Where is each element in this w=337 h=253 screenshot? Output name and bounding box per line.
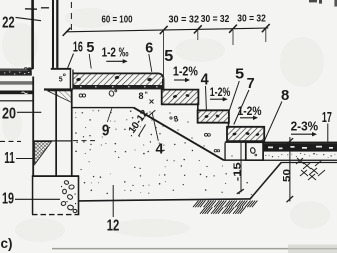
arrow landing <box>106 60 123 62</box>
footing top edge <box>32 175 79 177</box>
leader 17 <box>327 124 329 142</box>
stones in tile strip <box>76 78 81 82</box>
svg-text:7: 7 <box>247 75 255 92</box>
svg-text:5: 5 <box>164 48 173 65</box>
scan artifact top right <box>309 0 317 2</box>
joint 16 vertical lines <box>70 69 71 90</box>
landing tile top border with rounded nose <box>73 73 164 90</box>
leader 6 <box>149 54 152 72</box>
foundation wall left line <box>55 91 57 176</box>
riser 2 face <box>197 104 199 110</box>
dim line 50 <box>289 137 291 202</box>
svg-text:1-2%: 1-2% <box>238 104 262 118</box>
svg-text:60 = 100: 60 = 100 <box>102 15 133 26</box>
stone marks in landing concrete <box>79 94 82 97</box>
top dimension line <box>66 28 268 32</box>
svg-text:6: 6 <box>145 40 153 57</box>
svg-text:22: 22 <box>2 14 15 31</box>
svg-text:5: 5 <box>235 66 244 83</box>
wall base block top edge <box>51 68 71 70</box>
svg-text:30 = 32: 30 = 32 <box>201 14 230 25</box>
pavement bedding stipple <box>265 155 266 156</box>
landing concrete bottom line <box>71 107 134 108</box>
wall break dashes <box>25 8 37 10</box>
dashed extension of joint 16 <box>70 2 72 31</box>
leader 7 <box>234 90 249 125</box>
svg-text:19: 19 <box>2 191 14 208</box>
leader 9 <box>107 109 112 123</box>
stone marks in step concrete <box>170 117 172 119</box>
stroke mark near diagonal <box>139 125 146 137</box>
footing bottom dashed <box>32 214 79 216</box>
svg-text:12: 12 <box>107 218 120 235</box>
pavement dark layer <box>263 143 337 151</box>
svg-text:20: 20 <box>2 106 16 123</box>
line under tread3 to curb area <box>225 141 246 143</box>
excavation slope line <box>250 162 281 199</box>
interior floor layer line 2 <box>0 83 33 84</box>
landing nose face <box>162 79 164 90</box>
scan artifact bottom line <box>52 248 337 250</box>
svg-text:5: 5 <box>86 39 94 56</box>
svg-text:-15: -15 <box>233 162 244 182</box>
tread 1 <box>162 90 199 105</box>
horizontal line inside foundation <box>34 140 71 141</box>
leader 20 <box>17 111 41 113</box>
concrete mass bottom horizontal at curb <box>224 159 246 161</box>
svg-text:5: 5 <box>59 77 63 84</box>
soil hatch groups below excavation line <box>193 201 199 208</box>
arrow pavement <box>291 133 313 135</box>
stone dash left of curb <box>214 150 217 152</box>
arrow step1 <box>174 79 186 81</box>
landing tile hatch strip <box>73 73 162 85</box>
tread 3 <box>227 127 264 141</box>
wall outer face line 1 <box>52 0 54 68</box>
gravel stipple dots <box>74 111 77 114</box>
excavation bottom line <box>79 199 251 201</box>
svg-text:11: 11 <box>4 150 15 167</box>
interior floor screed band (dark) <box>0 70 32 75</box>
dashed line left of wall <box>0 140 21 142</box>
leader 19 <box>15 198 60 200</box>
wall outer face line 2 <box>56 0 58 68</box>
svg-text:“: “ <box>145 92 149 99</box>
svg-text:17: 17 <box>322 109 332 126</box>
svg-text:1-2%: 1-2% <box>173 64 198 79</box>
arrow step3 <box>240 117 254 119</box>
concrete mass diagonal boundary <box>134 108 224 161</box>
svg-text:2-3%: 2-3% <box>291 118 319 133</box>
sparse dots in step concrete <box>151 119 152 120</box>
svg-text:30 = 32: 30 = 32 <box>237 13 266 24</box>
curb block <box>246 142 263 160</box>
leader 5 <box>89 54 91 69</box>
stones in footing <box>64 180 69 185</box>
pavement bedding bottom line 1 <box>246 160 337 161</box>
undisturbed soil hatch right of slope <box>296 158 303 164</box>
foundation wall right line <box>71 89 73 176</box>
svg-text:9: 9 <box>102 123 110 140</box>
riser 3 face <box>228 123 230 127</box>
hatched triangle 11 <box>35 142 52 165</box>
small marks at floor/wall corner <box>28 68 31 70</box>
leader 5 tread2 <box>229 81 239 111</box>
interior waterproofing band (dark with squiggle) <box>0 91 33 95</box>
leader 22 <box>16 17 42 20</box>
landing mortar band (dark) <box>73 85 162 89</box>
svg-text:30 = 32: 30 = 32 <box>169 14 200 25</box>
concrete/bedding vertical separator <box>224 143 225 160</box>
leader 11 <box>16 158 34 160</box>
dim line -15 <box>240 142 242 193</box>
leader 4 <box>205 86 208 110</box>
wall base block bottom edge <box>44 88 73 90</box>
svg-text:c): c) <box>1 236 13 251</box>
svg-text:4: 4 <box>201 72 209 89</box>
pavement bedding bottom line 2 <box>281 162 337 163</box>
pavement top line <box>263 142 337 144</box>
svg-text:8: 8 <box>281 87 289 104</box>
svg-text:1-2%: 1-2% <box>210 85 231 99</box>
arrow step2 <box>210 98 224 100</box>
leader 8 <box>264 102 282 142</box>
interior floor surface line <box>0 69 33 70</box>
dimension ticks <box>63 28 71 36</box>
scan mottling <box>2 23 38 67</box>
interior floor layer line 1 <box>0 82 33 83</box>
svg-text:16: 16 <box>73 39 83 56</box>
svg-text:50: 50 <box>281 169 293 182</box>
leader 4 lower <box>152 112 158 141</box>
svg-text:8: 8 <box>139 91 144 101</box>
wall interior face line <box>31 0 34 69</box>
interior floor bottom line <box>0 100 34 101</box>
tread 2 <box>198 110 229 122</box>
leader 16 <box>68 54 74 69</box>
footing right edge <box>78 177 80 215</box>
hatched wedge under wall base <box>48 91 72 102</box>
dashed line right into gravel <box>73 140 95 142</box>
extension stubs below dim line <box>163 31 165 88</box>
footing left edge <box>32 177 34 215</box>
svg-text:4: 4 <box>156 142 164 158</box>
leader 12 <box>112 185 114 217</box>
svg-text:1-2 ‰: 1-2 ‰ <box>102 46 129 60</box>
